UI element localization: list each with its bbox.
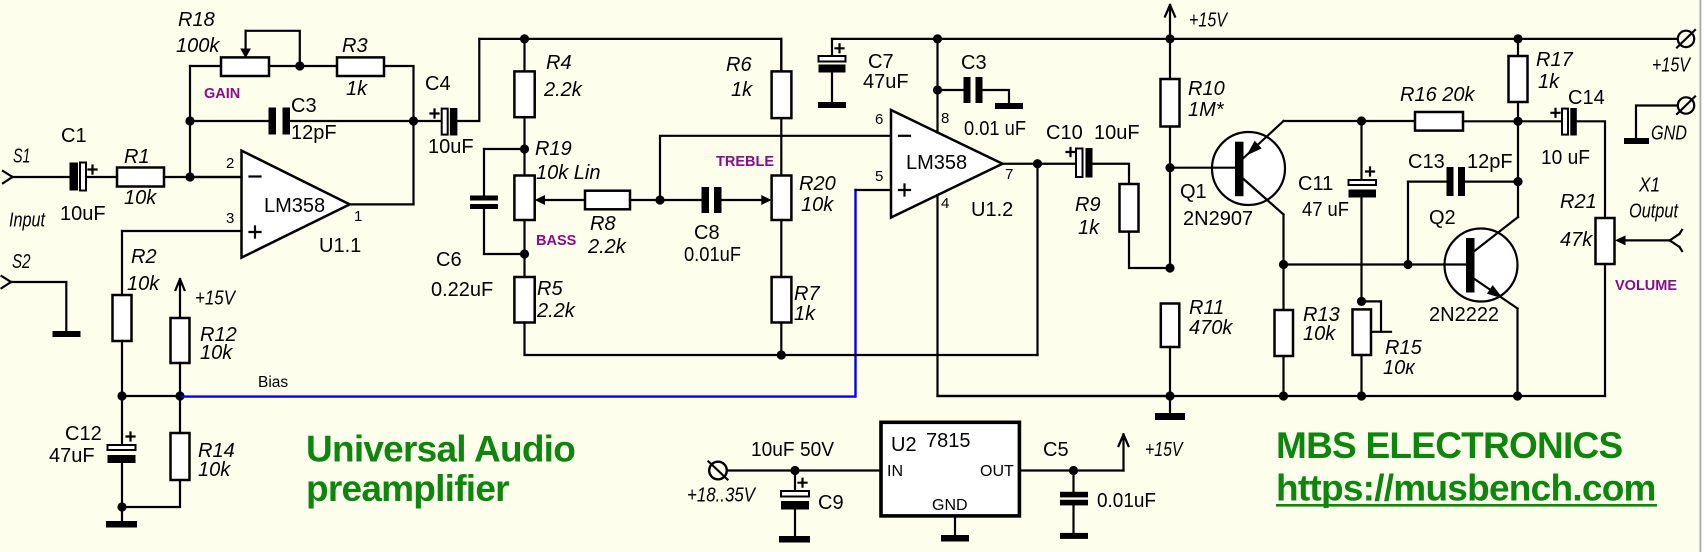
wire output [350, 203, 414, 205]
svg-text:R1: R1 [124, 146, 150, 168]
svg-text:12pF: 12pF [1467, 151, 1513, 173]
svg-text:47 uF: 47 uF [1302, 199, 1349, 221]
capacitor C12 [49, 396, 136, 467]
svg-text:1k: 1k [1078, 217, 1100, 239]
trimmer R15 [1353, 301, 1423, 379]
svg-text:2N2222: 2N2222 [1429, 304, 1499, 326]
svg-text:C8: C8 [694, 222, 720, 244]
capacitor C10 [1046, 122, 1140, 178]
svg-text:S1: S1 [13, 146, 31, 168]
svg-text:7: 7 [1005, 166, 1013, 183]
svg-text:10uF: 10uF [60, 203, 106, 225]
svg-text:S2: S2 [12, 251, 31, 273]
node junction [1403, 260, 1412, 269]
wire [1517, 102, 1519, 121]
resistor R11 [1161, 297, 1234, 347]
svg-text:C4: C4 [425, 73, 451, 95]
svg-text:2: 2 [226, 155, 234, 172]
wire [780, 220, 782, 277]
wire ground rail [938, 395, 1606, 397]
ground [995, 103, 1023, 109]
resistor R4 [514, 52, 582, 117]
wire [189, 66, 191, 177]
svg-text:IN: IN [887, 463, 903, 480]
svg-text:1M*: 1M* [1188, 99, 1225, 121]
potentiometer R18 [176, 9, 269, 76]
svg-text:10k: 10k [200, 342, 233, 364]
wire [190, 120, 269, 122]
ground [818, 102, 846, 108]
transistor Q1 [1170, 121, 1285, 230]
wire [1093, 164, 1130, 184]
wire emitter Q2 [1516, 309, 1518, 397]
node junction [185, 116, 194, 125]
resistor R8 [544, 191, 630, 258]
svg-text:C7: C7 [868, 51, 894, 73]
capacitor C8 [660, 187, 762, 266]
capacitor C4 [425, 73, 474, 158]
svg-text:47k: 47k [1560, 229, 1593, 251]
svg-text:10к: 10к [1383, 357, 1416, 379]
svg-text:GND: GND [1651, 123, 1687, 145]
resistor R3 [337, 35, 384, 100]
terminal GND [1624, 97, 1695, 145]
node junction [933, 85, 942, 94]
svg-text:C14: C14 [1568, 87, 1605, 109]
svg-text:R20: R20 [799, 173, 836, 195]
svg-text:10uF 50V: 10uF 50V [751, 439, 835, 461]
svg-text:2.2k: 2.2k [536, 300, 576, 322]
svg-text:U2: U2 [891, 434, 917, 456]
wire [414, 120, 442, 122]
node junction [1357, 297, 1366, 306]
resistor R13 [1275, 304, 1340, 356]
wire [1517, 39, 1519, 56]
svg-text:0.01 uF: 0.01 uF [964, 118, 1026, 140]
wire [484, 148, 525, 150]
svg-text:7815: 7815 [926, 430, 971, 452]
svg-text:R9: R9 [1075, 194, 1101, 216]
svg-text:R2: R2 [131, 246, 157, 268]
resistor R16 [1400, 84, 1475, 131]
wire [121, 341, 123, 396]
svg-text:47uF: 47uF [863, 71, 909, 93]
wire [1169, 39, 1171, 79]
svg-text:Universal Audio: Universal Audio [306, 429, 575, 470]
node junction [520, 34, 529, 43]
potentiometer R20 [761, 173, 835, 220]
wire [780, 39, 782, 72]
wire [523, 220, 525, 277]
svg-text:Q2: Q2 [1429, 207, 1456, 229]
node junction [933, 34, 942, 43]
svg-text:10k: 10k [1303, 323, 1336, 345]
node junction [1357, 391, 1366, 400]
wire [13, 176, 70, 178]
svg-text:GND: GND [932, 497, 968, 514]
resistor R12 [171, 318, 237, 364]
wire [1169, 127, 1171, 269]
svg-text:C3: C3 [291, 95, 317, 117]
svg-text:OUT: OUT [980, 463, 1014, 480]
svg-text:LM358: LM358 [264, 195, 325, 217]
node junction [185, 172, 194, 181]
wire collector Q1 [1282, 215, 1284, 311]
transistor Q2 [1284, 207, 1519, 326]
svg-text:100k: 100k [176, 35, 220, 57]
svg-text:Input: Input [9, 210, 46, 232]
potentiometer R19 [514, 138, 600, 220]
svg-text:R21: R21 [1560, 191, 1597, 213]
wire [1577, 121, 1605, 218]
ground [941, 535, 969, 542]
svg-text:0.01uF: 0.01uF [684, 244, 741, 266]
connector X1 [1625, 175, 1682, 252]
svg-text:C9: C9 [818, 492, 844, 514]
wire [630, 199, 660, 201]
wire [384, 66, 414, 204]
wire [179, 396, 181, 433]
wire [1360, 355, 1362, 396]
node junction [1513, 117, 1522, 126]
svg-text:4: 4 [941, 195, 949, 212]
svg-text:Bias: Bias [258, 374, 288, 391]
node junction [1513, 177, 1522, 186]
svg-text:10uF: 10uF [428, 136, 474, 158]
wire emitter Q1 [1284, 120, 1416, 122]
svg-text:GAIN: GAIN [204, 86, 240, 102]
svg-text:10k: 10k [198, 459, 231, 481]
wire [179, 363, 181, 396]
svg-text:10k Lin: 10k Lin [536, 162, 601, 184]
wire [484, 253, 525, 255]
node junction [1033, 159, 1042, 168]
connector S2 [2, 251, 31, 288]
node junction [655, 195, 664, 204]
node junction [790, 466, 799, 475]
resistor R6 [726, 54, 791, 118]
svg-text:R15: R15 [1385, 337, 1423, 359]
wire [1282, 356, 1284, 396]
terminal +18..35V [687, 462, 756, 507]
svg-text:47uF: 47uF [49, 445, 95, 467]
svg-text:C6: C6 [436, 249, 462, 271]
svg-text:TREBLE: TREBLE [716, 154, 774, 170]
svg-text:R7: R7 [794, 283, 820, 305]
ground [106, 521, 137, 528]
wire [780, 118, 782, 175]
node junction [409, 116, 418, 125]
node junction [1279, 260, 1288, 269]
svg-text:LM358: LM358 [906, 152, 967, 174]
wire pin8 [936, 39, 938, 133]
resistor R17 [1509, 49, 1574, 102]
power +15V arrow [176, 279, 237, 318]
svg-text:Output: Output [1629, 201, 1679, 223]
svg-text:VOLUME: VOLUME [1615, 278, 1677, 294]
wire feedback bottom [525, 323, 1038, 356]
power +15V arrow (supply) [1119, 435, 1184, 471]
ground main [1155, 396, 1185, 420]
logo MBS ELECTRONICS [1276, 425, 1657, 509]
wire pin5 stub [856, 189, 892, 191]
wire pin4 [938, 195, 1171, 396]
wire [122, 480, 180, 507]
svg-text:1k: 1k [346, 78, 368, 100]
svg-text:10k: 10k [124, 187, 157, 209]
regulator U2 7815 [881, 422, 1019, 516]
wire [269, 65, 337, 67]
svg-text:1: 1 [354, 208, 362, 225]
node junction [295, 61, 304, 70]
resistor R9 [1075, 184, 1139, 239]
svg-text:R18: R18 [178, 9, 215, 31]
wire [1463, 120, 1562, 122]
node junction [777, 350, 786, 359]
wire [246, 31, 300, 66]
capacitor C1 [60, 125, 106, 225]
capacitor C11 [1298, 121, 1376, 301]
svg-text:8: 8 [941, 110, 949, 127]
svg-text:2N2907: 2N2907 [1183, 208, 1253, 230]
svg-text:C11: C11 [1298, 173, 1333, 195]
wire [122, 395, 180, 397]
connector S1 [3, 146, 46, 232]
node junction [117, 502, 126, 511]
svg-text:1k: 1k [1538, 71, 1560, 93]
node junction [175, 391, 184, 400]
wire pin6 [660, 136, 891, 200]
svg-text:+15V: +15V [1145, 439, 1184, 461]
wire pin3 [122, 230, 242, 232]
svg-text:2.2k: 2.2k [587, 236, 627, 258]
svg-text:3: 3 [226, 210, 234, 227]
wire OUT [1019, 469, 1123, 471]
svg-text:+15V: +15V [1189, 10, 1228, 32]
wire [523, 117, 525, 175]
svg-text:R16 20k: R16 20k [1400, 84, 1475, 106]
wire [121, 231, 123, 295]
node junction [1165, 163, 1174, 172]
wire output U1.2 [1003, 163, 1077, 165]
wire [86, 176, 117, 178]
wire [727, 469, 881, 471]
svg-text:R8: R8 [590, 213, 616, 235]
svg-text:R5: R5 [537, 278, 563, 300]
node junction [1513, 391, 1522, 400]
ground [1060, 533, 1088, 539]
capacitor C13 [1408, 151, 1518, 265]
wire [290, 120, 414, 122]
power +15V arrow top [1165, 5, 1228, 39]
capacitor C6 [431, 149, 498, 301]
svg-text:C3: C3 [961, 52, 987, 74]
node junction [1069, 466, 1078, 475]
svg-text:10uF: 10uF [1094, 122, 1140, 144]
node junction [520, 249, 529, 258]
svg-text:C12: C12 [65, 423, 102, 445]
node junction [1279, 391, 1288, 400]
wire U2 gnd [954, 516, 956, 535]
ground [779, 536, 810, 543]
svg-text:R11: R11 [1189, 297, 1224, 319]
svg-text:U1.2: U1.2 [971, 199, 1013, 221]
wire [1604, 264, 1606, 396]
capacitor C9 [781, 471, 844, 537]
svg-text:0.01uF: 0.01uF [1097, 490, 1156, 512]
wire pin2 [190, 176, 242, 178]
svg-text:+15V: +15V [1652, 55, 1691, 77]
wire feedback vertical [1036, 164, 1038, 355]
node junction [1165, 391, 1174, 400]
svg-text:C1: C1 [61, 125, 87, 147]
svg-text:preamplifier: preamplifier [306, 468, 509, 509]
capacitor C5 [1043, 439, 1156, 533]
op-amp U1.1 [226, 151, 362, 258]
svg-text:0.22uF: 0.22uF [431, 279, 493, 301]
svg-text:10 uF: 10 uF [1541, 147, 1590, 169]
wire [121, 463, 123, 521]
node junction [1165, 263, 1174, 272]
capacitor C7 [819, 39, 909, 102]
svg-text:+18..35V: +18..35V [687, 485, 756, 507]
node junction [117, 391, 126, 400]
svg-text:Q1: Q1 [1180, 181, 1207, 203]
node junction [1357, 116, 1366, 125]
svg-text:6: 6 [875, 111, 883, 128]
svg-text:R10: R10 [1188, 78, 1225, 100]
capacitor C3 (0.01uF) [938, 52, 1027, 140]
wire [164, 176, 242, 178]
wire [11, 282, 66, 331]
resistor R7 [772, 277, 821, 325]
wire [780, 323, 782, 356]
resistor R10 [1161, 78, 1225, 127]
browser edge strip [1700, 0, 1704, 552]
terminal +15V [1652, 30, 1695, 77]
capacitor C3 [269, 95, 337, 144]
wire [1517, 121, 1519, 217]
resistor R14 [171, 433, 235, 481]
node junction [1165, 34, 1174, 43]
wire bias (blue) [182, 190, 856, 397]
resistor R2 [113, 246, 161, 341]
svg-text:BASS: BASS [536, 233, 577, 249]
svg-text:12pF: 12pF [291, 122, 337, 144]
svg-text:10k: 10k [801, 194, 834, 216]
svg-text:C5: C5 [1043, 439, 1069, 461]
wire top rail left [479, 39, 781, 72]
svg-text:C10: C10 [1046, 122, 1083, 144]
svg-text:10k: 10k [127, 273, 160, 295]
svg-text:5: 5 [875, 168, 883, 185]
svg-text:R3: R3 [342, 35, 368, 57]
ground [53, 331, 81, 337]
wire [190, 65, 221, 67]
title Universal Audio preamplifier [306, 429, 575, 510]
op-amp U1.2 [875, 110, 1013, 221]
wire [1169, 347, 1171, 396]
node junction [520, 144, 529, 153]
svg-text:U1.1: U1.1 [319, 235, 361, 257]
wire [457, 39, 479, 121]
svg-text:https://musbench.com: https://musbench.com [1276, 468, 1656, 509]
svg-text:1k: 1k [731, 79, 753, 101]
svg-text:MBS ELECTRONICS: MBS ELECTRONICS [1276, 425, 1623, 466]
capacitor C14 [1541, 87, 1605, 169]
svg-text:R4: R4 [546, 52, 572, 74]
svg-text:2.2k: 2.2k [543, 79, 583, 101]
wire top rail right [832, 38, 1678, 40]
node junction [1513, 34, 1522, 43]
svg-text:X1: X1 [1638, 175, 1660, 197]
svg-text:R6: R6 [726, 54, 752, 76]
svg-text:R17: R17 [1536, 49, 1574, 71]
svg-text:1k: 1k [794, 303, 816, 325]
wire [523, 39, 525, 72]
svg-text:+15V: +15V [195, 288, 236, 310]
svg-text:C13: C13 [1408, 151, 1445, 173]
svg-text:470k: 470k [1189, 317, 1233, 339]
resistor R5 [514, 277, 575, 323]
svg-text:R19: R19 [535, 138, 572, 160]
wire [1129, 232, 1170, 268]
resistor R1 [117, 146, 164, 209]
potentiometer R21 [1560, 191, 1626, 264]
